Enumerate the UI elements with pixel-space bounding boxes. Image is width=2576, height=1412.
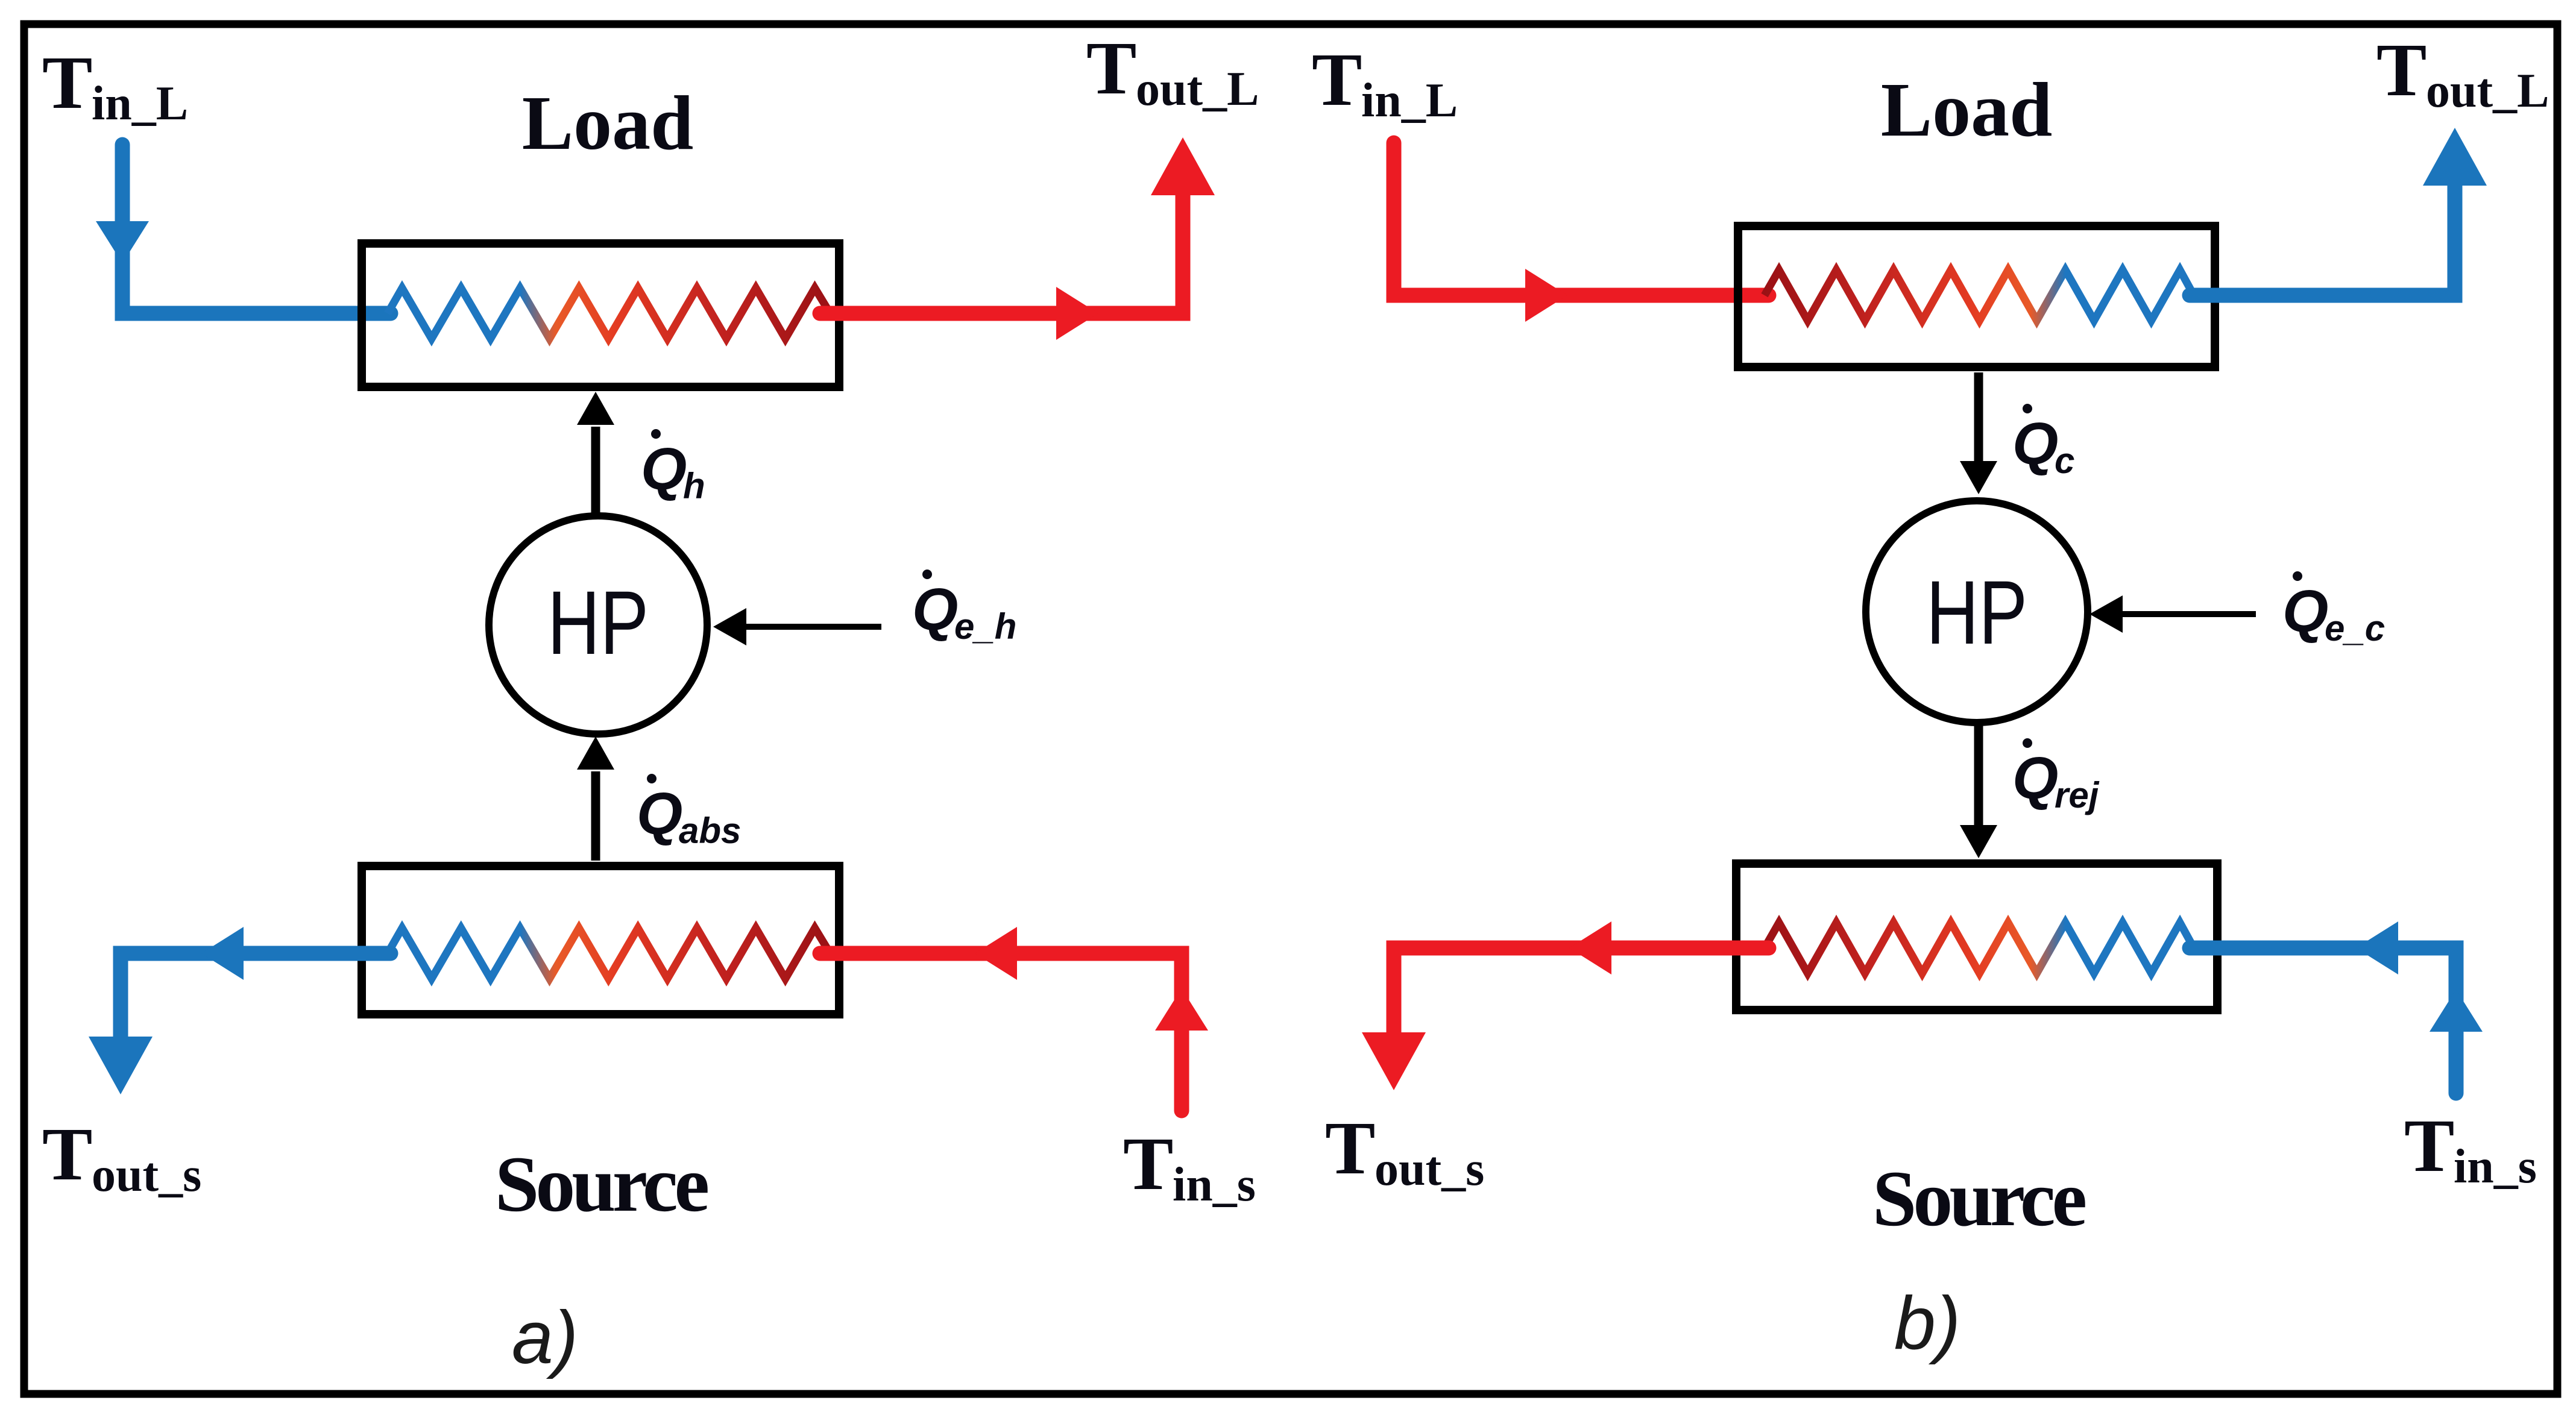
svg-text:T: T [2376,29,2426,112]
svg-text:T: T [1086,27,1136,110]
heat exchanger box Source (a) [362,866,839,1014]
svg-text:T: T [1312,39,1362,122]
HP circle (a) [489,516,707,734]
svg-text:Load: Load [522,80,694,166]
heat exchanger box Source (b) [1736,864,2217,1010]
svg-text:h: h [683,466,705,506]
arrow Q_e_h electricity into HP (a) [713,608,881,645]
arrow Q_h HP to Load (a) [577,392,614,516]
svg-text:T: T [1123,1123,1173,1206]
svg-text:abs: abs [679,811,741,851]
svg-text:e_c: e_c [2325,608,2385,648]
svg-text:HP: HP [1926,562,2027,663]
svg-text:a): a) [512,1296,578,1379]
svg-text:Source: Source [1872,1154,2086,1243]
svg-text:Source: Source [495,1140,708,1228]
svg-text:T: T [1325,1107,1375,1190]
arrow Q_rej HP to Source (b) [1960,724,1997,858]
svg-text:T: T [42,42,92,125]
wire blue outlet T_out_L (b) [2190,128,2487,295]
svg-text:HP: HP [547,572,649,673]
svg-text:Q: Q [2012,410,2058,477]
svg-text:in_L: in_L [1361,74,1458,127]
svg-text:out_L: out_L [1136,63,1259,116]
zigzag coil Load (a) [388,288,830,339]
svg-text:in_s: in_s [1173,1158,1256,1211]
svg-text:out_L: out_L [2426,64,2549,118]
wire red inlet T_in_s (a) [820,927,1208,1111]
svg-text:out_s: out_s [92,1149,201,1202]
HP circle (b) [1866,501,2088,723]
zigzag coil Source (b) [1765,923,2194,973]
svg-text:rej: rej [2055,775,2100,815]
wire red outlet T_out_s (b) [1362,921,1769,1090]
zigzag coil Source (a) [388,928,830,979]
arrow Q_c Load to HP (b) [1960,372,1997,494]
svg-text:e_h: e_h [954,606,1016,647]
svg-text:Load: Load [1881,67,2053,152]
svg-text:Q: Q [641,436,687,502]
svg-text:Q: Q [2282,578,2328,644]
arrow Q_abs Source to HP (a) [577,736,614,861]
svg-text:in_L: in_L [92,77,188,130]
wire red inlet T_in_L (b) [1394,143,1769,322]
wire blue outlet T_out_s (a) [89,927,391,1094]
svg-text:Q: Q [912,576,958,642]
svg-text:T: T [42,1113,92,1196]
svg-text:Q: Q [637,780,682,847]
wire blue inlet T_in_s (b) [2190,921,2483,1093]
svg-text:c: c [2055,441,2074,481]
heat exchanger box Load (b) [1738,226,2215,367]
wire blue inlet T_in_L (a) [96,145,391,313]
svg-text:T: T [2404,1105,2454,1188]
wire red outlet T_out_L (a) [820,137,1215,340]
arrow Q_e_c electricity into HP (b) [2089,595,2256,633]
svg-text:out_s: out_s [1375,1143,1484,1196]
svg-text:Q: Q [2012,745,2058,811]
zigzag coil Load (b) [1765,270,2194,321]
svg-text:b): b) [1894,1282,1960,1365]
svg-text:in_s: in_s [2454,1140,2537,1193]
heat exchanger box Load (a) [362,243,839,387]
